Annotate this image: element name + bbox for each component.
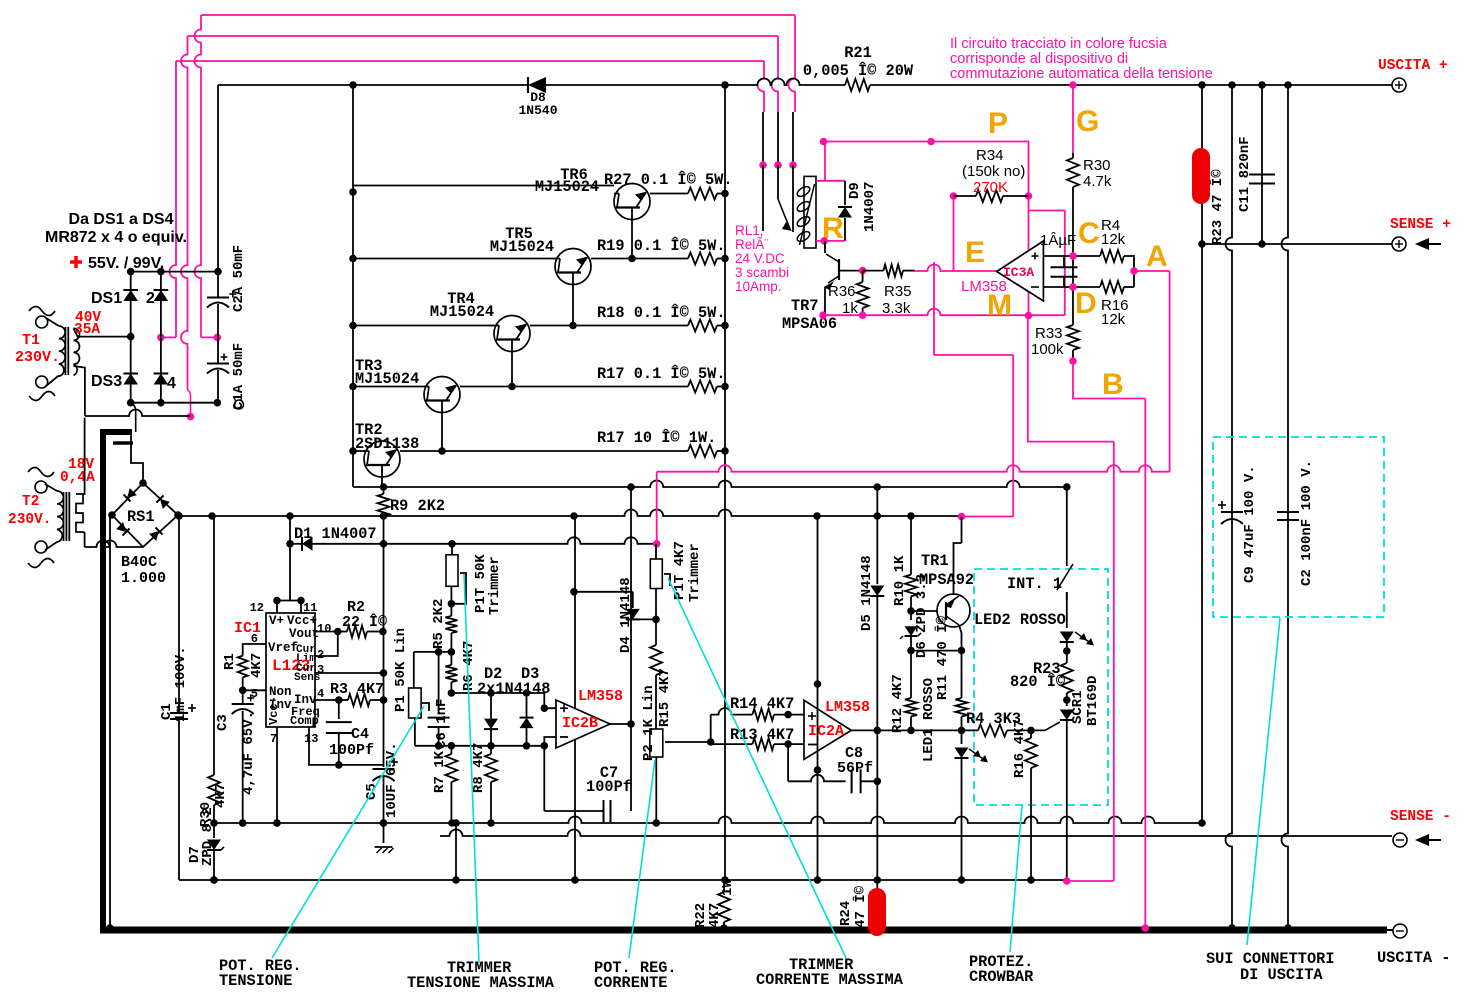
svg-text:TENSIONE: TENSIONE (219, 972, 292, 990)
svg-text:12k: 12k (1101, 311, 1126, 328)
red marker R24 (868, 888, 886, 936)
transformer T1 (29, 307, 190, 417)
diode D8 (518, 77, 557, 118)
transistor TR1 (919, 552, 974, 627)
svg-text:T2: T2 (22, 494, 39, 510)
svg-text:P: P (988, 107, 1008, 140)
resistor R27 (604, 171, 733, 200)
resistor R30 left (198, 516, 229, 827)
label RL1 (735, 223, 789, 294)
svg-text:1N4007: 1N4007 (862, 182, 878, 232)
resistor R16 12k (1100, 281, 1134, 328)
svg-text:R17 0.1 Î© 5W.: R17 0.1 Î© 5W. (597, 365, 726, 383)
callout protez crowbar (969, 805, 1034, 986)
svg-text:MJ15024: MJ15024 (355, 370, 419, 388)
svg-text:22 Î©: 22 Î© (342, 613, 387, 631)
thyristor SCR1 (1045, 676, 1101, 881)
wire M path (1028, 316, 1114, 885)
svg-text:C9 47uF 100 V.: C9 47uF 100 V. (1242, 465, 1258, 583)
svg-text:CORRENTE MASSIMA: CORRENTE MASSIMA (756, 971, 904, 989)
wire 574 to D4 (570, 588, 633, 596)
transistor TR5 (353, 225, 688, 329)
svg-text:C6 1nF: C6 1nF (434, 699, 450, 749)
svg-text:5: 5 (251, 687, 258, 701)
wire column 817 (814, 516, 822, 880)
svg-text:C1A 50mF: C1A 50mF (231, 343, 247, 410)
svg-text:T1: T1 (22, 332, 40, 349)
wire E path (934, 355, 1013, 517)
wire P riser (1025, 142, 1065, 320)
note fucsia (950, 36, 1213, 82)
resistor R10 (892, 516, 917, 615)
svg-text:12k: 12k (1101, 231, 1126, 248)
svg-text:RS1: RS1 (127, 508, 155, 526)
wire regulator column (383, 544, 385, 767)
wire C9 column (1226, 85, 1236, 932)
resistor R3 (315, 681, 387, 706)
svg-text:12: 12 (250, 601, 264, 615)
svg-text:2: 2 (146, 290, 155, 307)
svg-text:10: 10 (317, 622, 331, 636)
svg-text:56Pf: 56Pf (837, 760, 873, 777)
box crowbar dashed (974, 569, 1108, 805)
resistor R23 output (1208, 169, 1226, 245)
potentiometer P2 (641, 685, 715, 823)
wire internal ground rail (214, 817, 1202, 827)
svg-text:4K7: 4K7 (249, 653, 265, 678)
svg-text:100k: 100k (1031, 341, 1064, 358)
svg-text:R18 0.1 Î© 5W.: R18 0.1 Î© 5W. (597, 304, 726, 322)
svg-text:230V.: 230V. (8, 512, 52, 528)
svg-text:D1 1N4007: D1 1N4007 (294, 525, 377, 543)
trimmer P1T 4K7 (650, 541, 703, 623)
capacitor C5 (364, 742, 400, 843)
resistor R14 (711, 695, 804, 744)
diode DS2 (146, 272, 168, 338)
svg-text:R9 2K2: R9 2K2 (390, 497, 445, 515)
svg-text:INT. 1: INT. 1 (1007, 575, 1062, 593)
svg-text:LM358: LM358 (961, 278, 1007, 295)
resistor R16 crowbar (1012, 719, 1037, 880)
resistor R13 (711, 726, 804, 750)
svg-text:R14 4K7: R14 4K7 (730, 695, 794, 713)
wire vertical 575 (574, 516, 576, 880)
svg-text:RelÃ¨: RelÃ¨ (735, 237, 769, 252)
transformer T2 (28, 418, 143, 568)
resistor R9 (378, 487, 446, 544)
capacitor C8 (788, 744, 881, 793)
node C (1069, 252, 1077, 260)
resistor R22 (693, 879, 736, 932)
svg-text:47 Î©: 47 Î© (851, 885, 869, 928)
letter G (1076, 105, 1099, 138)
letter A (1146, 240, 1168, 273)
capacitor C3 (215, 690, 257, 827)
wire minus row (1043, 283, 1100, 291)
resistor R7 (432, 746, 457, 823)
wire relay bottom (816, 237, 845, 253)
wire A path (657, 271, 1170, 544)
svg-text:R23 47 Î©: R23 47 Î© (1208, 169, 1226, 245)
transistor TR7 (782, 241, 863, 333)
svg-text:(150k no): (150k no) (962, 163, 1025, 180)
svg-text:820 Î©: 820 Î© (1010, 673, 1065, 691)
svg-text:R34: R34 (976, 147, 1004, 164)
svg-text:R30: R30 (1083, 157, 1111, 174)
resistor R35 (863, 265, 915, 317)
svg-text:C4: C4 (351, 726, 369, 743)
wire output rail right vertical (1198, 85, 1206, 827)
svg-text:10UF 65V.: 10UF 65V. (384, 742, 400, 818)
svg-text:4,7uF 65V.: 4,7uF 65V. (241, 711, 257, 795)
transistor TR2 (353, 421, 688, 487)
terminal USCITA + (1378, 58, 1448, 92)
box output caps dashed (1213, 437, 1384, 617)
wire clamp top row (451, 689, 556, 712)
resistor R17a (597, 365, 726, 393)
svg-text:Trimmer: Trimmer (687, 543, 703, 602)
resistor R4 12k (1100, 217, 1134, 287)
svg-text:R33: R33 (1035, 325, 1063, 342)
svg-text:MR872 x 4 o equiv.: MR872 x 4 o equiv. (45, 229, 187, 246)
svg-text:R36: R36 (828, 283, 856, 300)
svg-text:LM358: LM358 (825, 699, 870, 716)
wire C2 column (1282, 85, 1292, 932)
wire collector trunk (349, 85, 357, 487)
wire Vcc- ground (273, 727, 281, 827)
wire P1 bottom (414, 718, 416, 746)
resistor R15 (650, 619, 673, 729)
svg-text:R3 4K7: R3 4K7 (330, 681, 384, 698)
diode DS1 (91, 272, 138, 341)
wire crossbar small vertical (452, 823, 460, 884)
wire G column (1067, 81, 1112, 256)
svg-text:4.7k: 4.7k (1083, 173, 1112, 190)
op-amp IC2B (544, 688, 623, 748)
bridge RS1 (108, 479, 182, 547)
letter E (965, 236, 985, 269)
svg-text:Da DS1 a DS4: Da DS1 a DS4 (69, 211, 174, 228)
resistor R24 (838, 880, 877, 928)
diode D2 (484, 665, 502, 746)
terminal SENSE + (1202, 217, 1451, 251)
svg-text:35A: 35A (74, 322, 100, 338)
wire emitter trunk (721, 85, 729, 880)
wire fucsia tap line 3 (157, 61, 764, 341)
svg-text:R35: R35 (884, 283, 912, 300)
svg-text:IC2B: IC2B (562, 715, 598, 732)
resistor R6 (445, 641, 477, 697)
wire fucsia tap line 1 (top) (195, 15, 796, 341)
wire IC2A out (851, 727, 965, 735)
ground bar mark (113, 441, 133, 445)
svg-text:1.000: 1.000 (121, 570, 166, 587)
wire D5 column lower (876, 730, 878, 880)
wire P line (820, 138, 1029, 146)
svg-text:2SD1138: 2SD1138 (355, 435, 419, 453)
svg-text:CORRENTE: CORRENTE (594, 974, 667, 992)
wire top unregulated rail (218, 79, 1399, 272)
svg-text:0,4A: 0,4A (60, 470, 95, 486)
svg-text:TR1: TR1 (921, 552, 949, 570)
resistor R1 (222, 644, 266, 694)
svg-text:2x1N4148: 2x1N4148 (477, 680, 550, 698)
resistor R36 (828, 267, 869, 317)
svg-text:R10 1K: R10 1K (892, 555, 908, 606)
label B40C (121, 554, 166, 587)
wire pin3 row (315, 669, 387, 677)
resistor R34 (950, 147, 1029, 202)
diode D9 (838, 181, 878, 241)
svg-text:11: 11 (303, 601, 317, 615)
svg-text:4K7: 4K7 (213, 783, 229, 808)
svg-text:2: 2 (317, 648, 324, 662)
trimmer P1T 50K (446, 544, 503, 616)
diode DS4 (154, 337, 176, 402)
zener D6 (900, 574, 930, 658)
svg-text:10Amp.: 10Amp. (735, 279, 782, 294)
letter D (1075, 287, 1097, 320)
resistor R12 (890, 651, 917, 733)
label 40V 35A (74, 310, 101, 338)
wire R34 left riser (953, 196, 955, 271)
node pot row (414, 648, 455, 656)
svg-text:55V. / 99V.: 55V. / 99V. (88, 255, 164, 272)
svg-text:BT169D: BT169D (1085, 676, 1101, 726)
svg-text:R13 4K7: R13 4K7 (730, 726, 794, 744)
wire clamp bottom row (415, 742, 548, 750)
resistor R18 (597, 304, 726, 332)
svg-text:C2 100nF 100 V.: C2 100nF 100 V. (1299, 460, 1315, 586)
node A to P1T (653, 540, 661, 548)
svg-text:D9: D9 (847, 182, 863, 199)
label 18V 0,4A (60, 457, 95, 486)
svg-text:TR7: TR7 (791, 297, 819, 315)
diode DS3 (91, 337, 138, 403)
wire sense minus rail (440, 830, 1392, 837)
svg-text:Vcc-: Vcc- (267, 696, 281, 725)
relay RL1 coil (796, 176, 816, 248)
svg-text:R7 1K: R7 1K (432, 750, 448, 793)
svg-text:corrisponde al dispositivo di: corrisponde al dispositivo di (950, 51, 1128, 67)
svg-text:V+: V+ (269, 614, 284, 628)
svg-text:A: A (1146, 240, 1168, 273)
svg-text:CROWBAR: CROWBAR (969, 968, 1034, 986)
letter M (987, 289, 1012, 322)
svg-text:Comp: Comp (290, 714, 319, 728)
capacitor C6 (428, 652, 450, 749)
potentiometer P1 (393, 628, 429, 718)
svg-text:0,005 Î© 20W: 0,005 Î© 20W (803, 62, 914, 80)
svg-text:commutazione automatica della: commutazione automatica della tensione (950, 66, 1213, 82)
svg-text:3: 3 (317, 663, 324, 677)
svg-text:R24: R24 (838, 901, 854, 926)
svg-text:DS1: DS1 (91, 290, 122, 307)
wire plus row (1043, 252, 1100, 260)
wire E column (933, 262, 935, 355)
svg-text:R15 4K7: R15 4K7 (657, 668, 673, 727)
wire C-D segment (1072, 256, 1074, 325)
svg-text:D5 1N4148: D5 1N4148 (859, 555, 875, 631)
svg-text:MJ15024: MJ15024 (535, 178, 599, 196)
svg-text:24 V.DC: 24 V.DC (735, 251, 785, 266)
switch INT1 (1007, 487, 1073, 600)
wire contact 3 (759, 112, 767, 231)
callout trimmer corrente massima (668, 578, 904, 989)
wire relay top (816, 142, 845, 181)
capacitor C1 (159, 512, 196, 880)
resistor R17b (597, 429, 725, 457)
svg-text:C3: C3 (215, 714, 231, 731)
wire RS1 output rail (178, 510, 962, 520)
resistor R4 3K3 (962, 710, 1046, 736)
svg-text:4: 4 (167, 375, 176, 392)
wire IC2B out (610, 487, 635, 811)
capacitor C2 (1277, 460, 1315, 586)
wire DS center tap (131, 403, 136, 432)
capacitor 1uF (1040, 232, 1078, 287)
label 55V 99V (70, 255, 164, 272)
resistor R5 (431, 599, 457, 652)
svg-text:USCITA +: USCITA + (1378, 58, 1448, 74)
svg-text:LED2 ROSSO: LED2 ROSSO (974, 611, 1066, 629)
svg-text:MJ15024: MJ15024 (430, 303, 494, 321)
callout pot reg tensione (219, 706, 424, 990)
svg-text:R27 0.1 Î© 5W.: R27 0.1 Î© 5W. (604, 171, 733, 189)
svg-text:IC3A: IC3A (1003, 265, 1034, 280)
svg-text:SENSE +: SENSE + (1390, 217, 1451, 233)
transistor TR4 (353, 290, 688, 390)
led LED2 (974, 592, 1094, 660)
svg-text:R19 0.1 Î© 5W.: R19 0.1 Î© 5W. (597, 237, 726, 255)
svg-text:B40C: B40C (121, 554, 157, 571)
svg-text:Vout: Vout (289, 627, 319, 641)
svg-text:R12 4K7: R12 4K7 (890, 674, 906, 733)
node A (1130, 267, 1138, 275)
wire TR1 collector (954, 543, 962, 595)
capacitor C1A (207, 337, 247, 410)
svg-text:TENSIONE MASSIMA: TENSIONE MASSIMA (407, 974, 555, 992)
svg-text:SCR1: SCR1 (1070, 690, 1086, 724)
svg-text:Vcc+: Vcc+ (287, 614, 317, 628)
svg-text:4: 4 (317, 687, 324, 701)
svg-text:P1 50K Lin: P1 50K Lin (393, 628, 409, 712)
svg-text:USCITA -: USCITA - (1377, 949, 1450, 967)
svg-text:G: G (1076, 105, 1099, 138)
svg-text:DS3: DS3 (91, 373, 122, 390)
wire DS bridge top rail (127, 268, 222, 276)
svg-text:C11 820nF: C11 820nF (1237, 136, 1253, 212)
led LED1 (921, 678, 988, 880)
wire M column (961, 517, 963, 544)
svg-text:ZPD 8.2: ZPD 8.2 (200, 807, 216, 866)
svg-text:1N540: 1N540 (518, 103, 557, 118)
capacitor C4 (309, 700, 384, 769)
node D (1069, 283, 1077, 291)
svg-text:Trimmer: Trimmer (487, 556, 503, 615)
letter R (822, 212, 844, 245)
svg-text:Vref: Vref (268, 641, 298, 655)
svg-text:270K: 270K (973, 179, 1008, 196)
diode D3 (477, 665, 550, 746)
svg-text:R1: R1 (222, 653, 238, 670)
svg-text:LM358: LM358 (578, 688, 623, 705)
svg-text:13: 13 (304, 732, 318, 746)
svg-text:100Pf: 100Pf (586, 778, 632, 796)
svg-text:3 scambi: 3 scambi (735, 265, 789, 280)
wire L123 supply (289, 544, 291, 600)
op-amp IC2A (804, 699, 870, 759)
ground bus thick (100, 429, 1387, 931)
svg-text:SENSE -: SENSE - (1390, 809, 1451, 825)
resistor R2 (315, 599, 387, 656)
svg-text:R21: R21 (844, 44, 872, 62)
wire base row crowbar (911, 610, 937, 612)
resistor R11 (933, 615, 968, 730)
wire contact 2 (774, 112, 782, 199)
red marker R23 (1192, 148, 1210, 204)
letter C (1078, 217, 1100, 250)
svg-text:DI USCITA: DI USCITA (1240, 966, 1323, 984)
node RS1 out magenta (958, 513, 966, 521)
svg-text:1ÂµF: 1ÂµF (1040, 232, 1076, 249)
resistor R23 820 (1010, 660, 1073, 704)
svg-text:LED1 ROSSO: LED1 ROSSO (921, 678, 937, 762)
letter B (1102, 368, 1124, 401)
svg-text:4K7: 4K7 (707, 903, 723, 928)
capacitor C7 (544, 746, 632, 822)
svg-text:C2A 50mF: C2A 50mF (231, 245, 247, 312)
svg-text:1mF 100V.: 1mF 100V. (173, 646, 189, 722)
wire TR7 bottom row (819, 309, 1065, 319)
callout pot reg corrente (594, 760, 677, 992)
svg-text:C: C (1078, 217, 1100, 250)
svg-text:D: D (1075, 287, 1097, 320)
diode D5 (859, 483, 884, 730)
transistor TR6 (353, 166, 688, 262)
svg-text:IC2A: IC2A (808, 723, 844, 740)
wire contact 1 (789, 112, 797, 232)
svg-text:MPSA06: MPSA06 (782, 315, 837, 333)
diode D1 (286, 516, 657, 551)
terminal USCITA - (1377, 924, 1450, 967)
wire RS1 top to bus (131, 434, 143, 483)
svg-text:Il circuito tracciato in color: Il circuito tracciato in colore fucsia (950, 36, 1168, 52)
resistor R8 (471, 743, 497, 823)
label Da DS1 a DS4 (45, 211, 187, 246)
ground (375, 847, 394, 853)
label T2 (8, 494, 52, 528)
svg-text:IC1: IC1 (234, 620, 261, 637)
wire B path (1073, 361, 1149, 932)
relay contact arm (778, 199, 792, 231)
callout sui connettori (1206, 618, 1335, 984)
svg-text:1W: 1W (720, 879, 736, 896)
op-amp IC3A (961, 241, 1043, 301)
wire lower rail (179, 876, 1067, 884)
svg-text:R5 2K2: R5 2K2 (431, 599, 447, 649)
svg-text:RL1,: RL1, (735, 223, 764, 238)
svg-text:MJ15024: MJ15024 (490, 238, 554, 256)
zener D7 (187, 807, 224, 884)
svg-text:230V.: 230V. (15, 349, 60, 366)
wire base to opamp (915, 265, 997, 271)
label IC1 (234, 620, 261, 637)
wire fucsia tap line 2 (181, 36, 778, 420)
wire driver emitter rail (353, 481, 1071, 491)
callout trimmer tensione massima (407, 574, 555, 992)
wire TR1 emitter (911, 625, 965, 654)
